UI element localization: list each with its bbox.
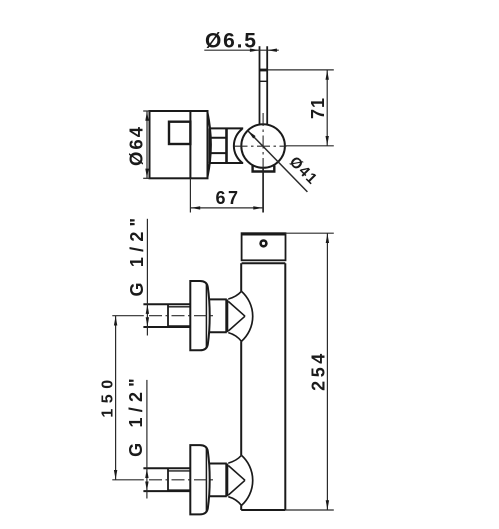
svg-text:254: 254 (308, 350, 328, 391)
svg-text:G 1/2": G 1/2" (127, 213, 147, 297)
svg-text:67: 67 (215, 188, 240, 208)
svg-text:Ø41: Ø41 (286, 153, 321, 188)
svg-text:150: 150 (100, 374, 117, 417)
svg-text:Ø64: Ø64 (126, 125, 147, 166)
svg-text:71: 71 (308, 97, 328, 119)
svg-text:Ø6.5: Ø6.5 (205, 30, 258, 53)
svg-text:G 1/2": G 1/2" (126, 373, 146, 457)
